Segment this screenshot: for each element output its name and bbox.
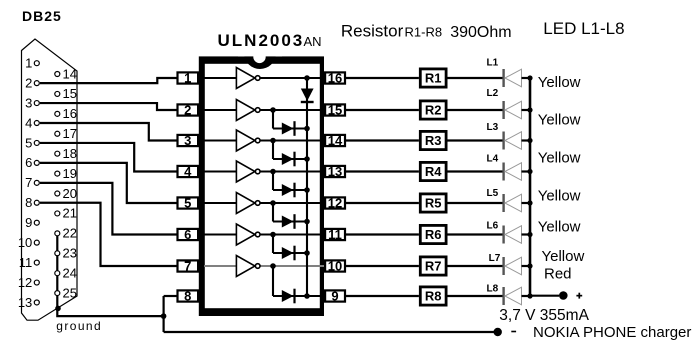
- svg-text:R2: R2: [425, 103, 442, 118]
- svg-text:DB25: DB25: [22, 8, 62, 24]
- svg-text:Yellow: Yellow: [538, 149, 581, 166]
- svg-text:12: 12: [18, 275, 32, 290]
- svg-text:6: 6: [184, 227, 191, 242]
- svg-text:R8: R8: [425, 289, 442, 304]
- svg-text:11: 11: [19, 255, 33, 270]
- svg-text:4: 4: [184, 164, 192, 179]
- svg-text:LED L1-L8: LED L1-L8: [543, 19, 624, 38]
- svg-text:AN: AN: [304, 34, 322, 49]
- svg-text:3: 3: [25, 95, 32, 110]
- svg-text:6: 6: [25, 155, 32, 170]
- svg-text:Yellow: Yellow: [542, 248, 585, 265]
- svg-text:14: 14: [63, 66, 77, 81]
- svg-text:13: 13: [18, 295, 32, 310]
- svg-text:15: 15: [328, 102, 342, 117]
- svg-text:L5: L5: [487, 188, 499, 199]
- svg-text:3: 3: [184, 133, 191, 148]
- svg-text:3,7 V 355mA: 3,7 V 355mA: [499, 307, 589, 324]
- svg-text:L8: L8: [487, 284, 499, 295]
- svg-text:10: 10: [328, 258, 342, 273]
- svg-text:Yellow: Yellow: [538, 187, 581, 204]
- svg-text:22: 22: [63, 226, 77, 241]
- svg-text:R1: R1: [425, 71, 442, 86]
- svg-text:14: 14: [328, 133, 343, 148]
- svg-text:9: 9: [25, 215, 32, 230]
- svg-text:16: 16: [63, 106, 77, 121]
- svg-text:4: 4: [25, 115, 32, 130]
- svg-text:NOKIA PHONE charger: NOKIA PHONE charger: [533, 324, 691, 341]
- svg-text:1: 1: [25, 56, 32, 71]
- svg-text:8: 8: [25, 195, 32, 210]
- svg-text:7: 7: [25, 175, 32, 190]
- svg-text:11: 11: [328, 227, 342, 242]
- svg-text:R5: R5: [425, 196, 442, 211]
- svg-text:8: 8: [184, 288, 191, 303]
- svg-text:ground: ground: [56, 319, 102, 333]
- svg-text:5: 5: [25, 135, 32, 150]
- svg-text:10: 10: [18, 235, 32, 250]
- svg-text:24: 24: [63, 266, 77, 281]
- svg-text:R4: R4: [425, 164, 442, 179]
- svg-text:L2: L2: [487, 88, 499, 99]
- svg-text:20: 20: [63, 186, 77, 201]
- svg-text:Red: Red: [544, 266, 572, 283]
- svg-text:R6: R6: [425, 227, 442, 242]
- svg-text:L3: L3: [487, 122, 499, 133]
- svg-text:2: 2: [25, 75, 32, 90]
- svg-text:R1-R8: R1-R8: [405, 25, 443, 40]
- svg-text:Resistor: Resistor: [341, 22, 404, 41]
- svg-text:L4: L4: [487, 154, 499, 165]
- svg-text:R7: R7: [425, 259, 442, 274]
- svg-text:16: 16: [328, 70, 342, 85]
- svg-text:390Ohm: 390Ohm: [450, 24, 511, 41]
- svg-text:R3: R3: [425, 133, 442, 148]
- svg-text:15: 15: [63, 86, 77, 101]
- svg-text:23: 23: [63, 246, 77, 261]
- svg-text:18: 18: [63, 146, 77, 161]
- svg-text:17: 17: [63, 126, 77, 141]
- svg-text:7: 7: [184, 258, 191, 273]
- svg-text:21: 21: [63, 206, 77, 221]
- svg-text:1: 1: [184, 70, 191, 85]
- svg-text:Yellow: Yellow: [538, 74, 581, 91]
- svg-text:Yellow: Yellow: [538, 112, 581, 129]
- svg-text:19: 19: [63, 166, 77, 181]
- svg-text:25: 25: [63, 285, 77, 300]
- svg-text:13: 13: [328, 164, 342, 179]
- svg-text:5: 5: [184, 195, 191, 210]
- svg-text:ULN2003: ULN2003: [218, 31, 305, 50]
- svg-text:12: 12: [328, 195, 342, 210]
- svg-text:L7: L7: [489, 253, 501, 264]
- svg-text:Yellow: Yellow: [538, 219, 581, 236]
- svg-text:L1: L1: [487, 58, 499, 69]
- svg-text:L6: L6: [487, 221, 499, 232]
- svg-text:2: 2: [184, 102, 191, 117]
- svg-text:9: 9: [331, 288, 338, 303]
